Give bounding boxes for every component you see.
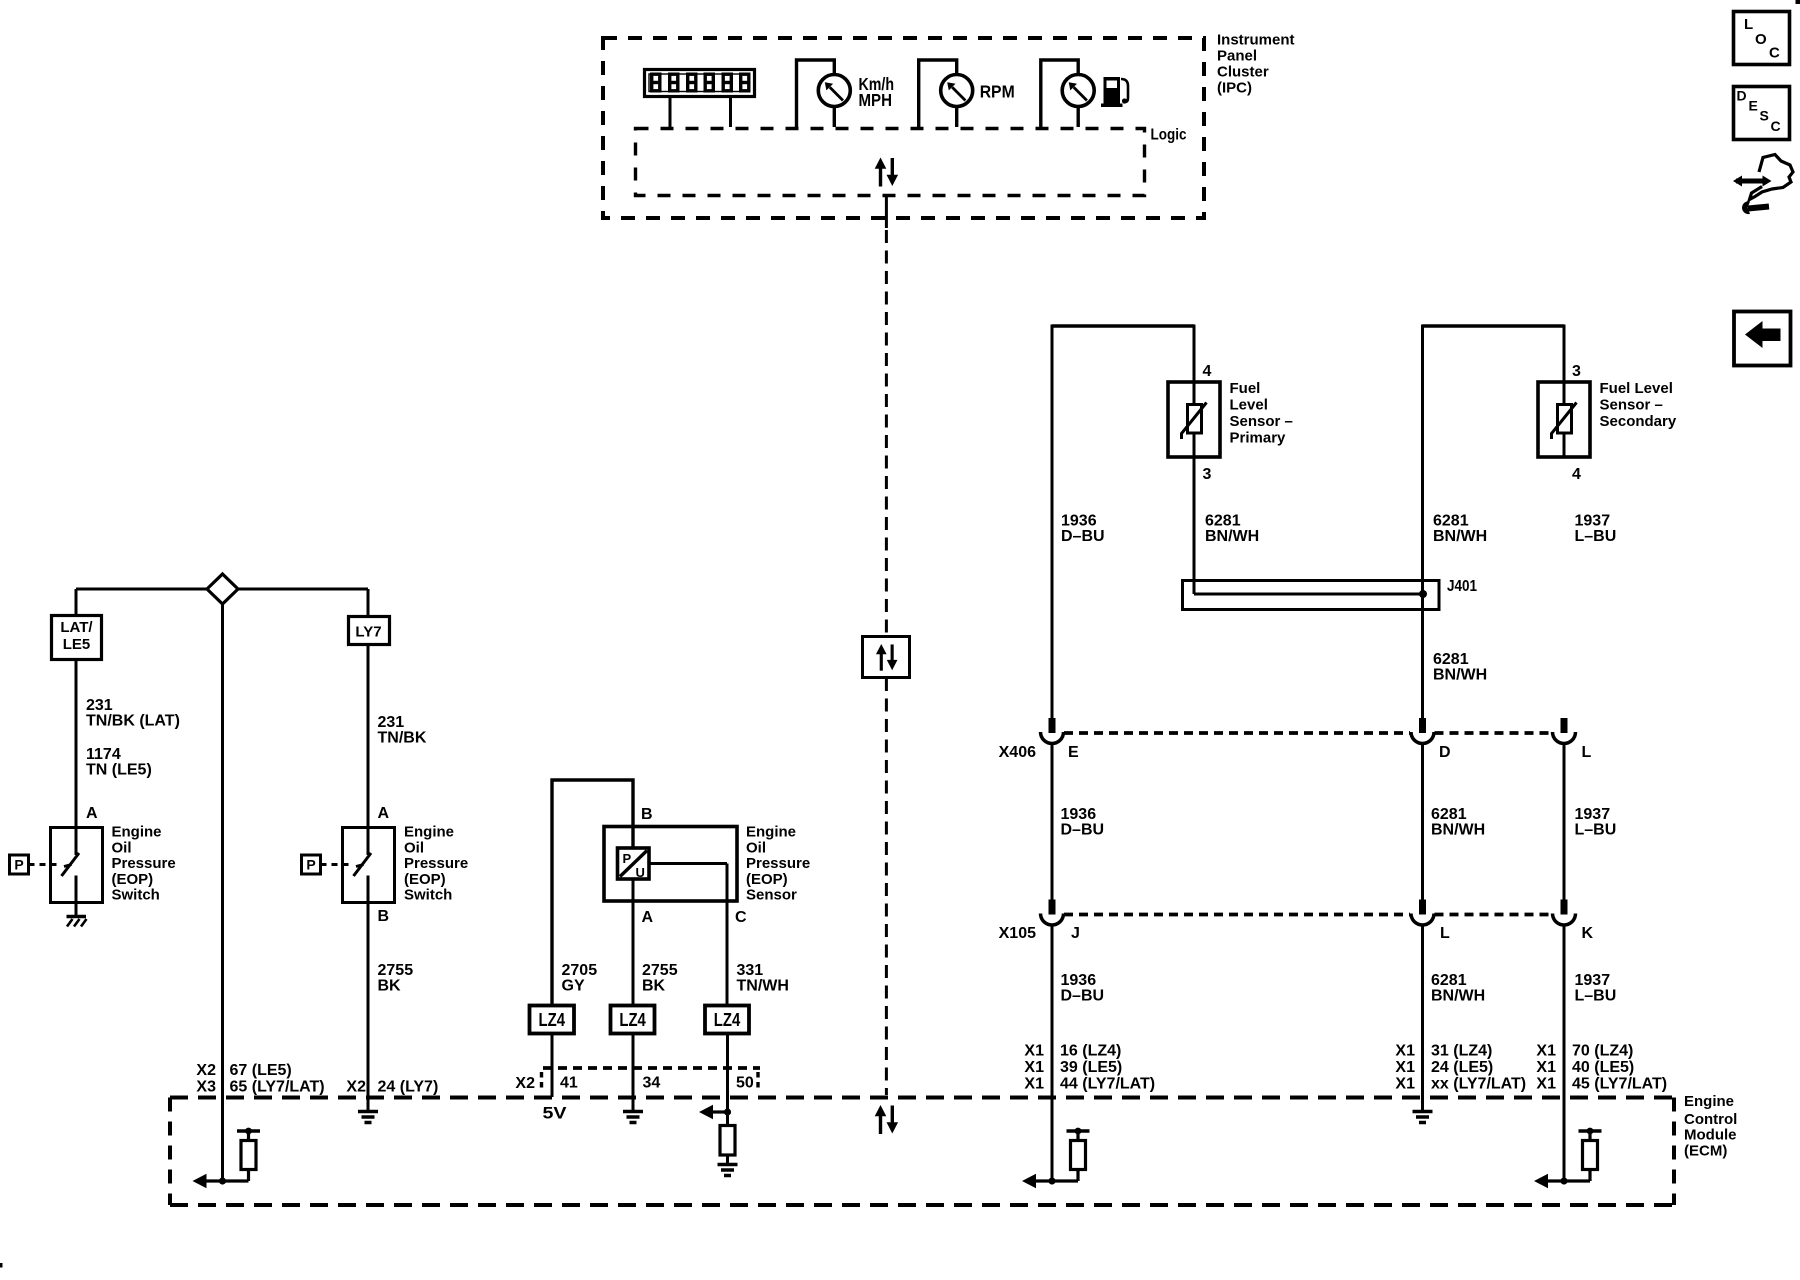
svg-text:Engine: Engine	[746, 824, 796, 841]
svg-text:231: 231	[86, 697, 113, 714]
svg-text:Switch: Switch	[404, 887, 452, 904]
svg-text:A: A	[86, 805, 98, 822]
svg-text:Module: Module	[1684, 1127, 1737, 1144]
svg-text:6281: 6281	[1433, 651, 1469, 668]
svg-text:P: P	[623, 851, 632, 866]
svg-text:331: 331	[737, 962, 764, 979]
svg-text:xx (LY7/LAT): xx (LY7/LAT)	[1431, 1076, 1526, 1093]
svg-text:B: B	[641, 806, 653, 823]
svg-text:70 (LZ4): 70 (LZ4)	[1572, 1043, 1633, 1060]
svg-text:2705: 2705	[562, 962, 598, 979]
svg-text:Secondary: Secondary	[1600, 413, 1677, 430]
svg-text:5V: 5V	[543, 1104, 568, 1123]
svg-text:C: C	[1769, 45, 1780, 62]
svg-text:B: B	[378, 908, 390, 925]
svg-text:2755: 2755	[642, 962, 678, 979]
svg-text:24 (LY7): 24 (LY7)	[378, 1079, 439, 1096]
svg-text:C: C	[1771, 118, 1781, 134]
svg-text:1936: 1936	[1061, 513, 1097, 530]
svg-text:Engine: Engine	[404, 824, 454, 841]
svg-text:6281: 6281	[1205, 513, 1241, 530]
svg-text:A: A	[378, 805, 390, 822]
svg-text:J401: J401	[1447, 578, 1477, 595]
svg-text:BK: BK	[378, 978, 402, 995]
svg-text:X1: X1	[1024, 1076, 1044, 1093]
svg-text:X2: X2	[346, 1079, 366, 1096]
svg-text:C: C	[735, 909, 747, 926]
svg-text:Switch: Switch	[112, 887, 160, 904]
svg-text:S: S	[1760, 108, 1769, 124]
svg-text:J: J	[1071, 925, 1080, 942]
svg-text:X2: X2	[196, 1062, 216, 1079]
svg-text:44 (LY7/LAT): 44 (LY7/LAT)	[1060, 1076, 1155, 1093]
svg-text:RPM: RPM	[980, 82, 1015, 102]
svg-text:2755: 2755	[378, 962, 414, 979]
svg-text:X1: X1	[1395, 1059, 1415, 1076]
svg-text:LZ4: LZ4	[539, 1010, 566, 1030]
svg-text:Oil: Oil	[404, 839, 424, 856]
svg-text:45 (LY7/LAT): 45 (LY7/LAT)	[1572, 1076, 1667, 1093]
svg-text:L–BU: L–BU	[1575, 822, 1617, 839]
svg-text:MPH: MPH	[859, 90, 893, 110]
svg-text:P: P	[306, 857, 315, 873]
svg-text:X1: X1	[1395, 1076, 1415, 1093]
svg-text:6281: 6281	[1431, 806, 1467, 823]
svg-text:GY: GY	[562, 978, 585, 995]
svg-text:X1: X1	[1024, 1059, 1044, 1076]
svg-text:BN/WH: BN/WH	[1433, 667, 1487, 684]
svg-text:Primary: Primary	[1230, 430, 1287, 447]
svg-text:Fuel Level: Fuel Level	[1600, 380, 1673, 397]
svg-text:TN/BK (LAT): TN/BK (LAT)	[86, 713, 180, 730]
svg-text:A: A	[642, 909, 654, 926]
svg-text:L: L	[1440, 925, 1450, 942]
svg-text:L–BU: L–BU	[1575, 528, 1617, 545]
svg-text:X105: X105	[999, 925, 1036, 942]
svg-text:4: 4	[1572, 466, 1581, 483]
svg-text:4: 4	[1203, 363, 1212, 380]
svg-text:(EOP): (EOP)	[746, 871, 788, 888]
svg-text:D: D	[1439, 744, 1451, 761]
svg-text:X1: X1	[1024, 1043, 1044, 1060]
svg-text:L: L	[1582, 744, 1592, 761]
svg-text:K: K	[1582, 925, 1594, 942]
svg-text:X1: X1	[1536, 1043, 1556, 1060]
svg-text:U: U	[636, 865, 645, 880]
svg-text:Pressure: Pressure	[746, 855, 810, 872]
svg-text:LAT/: LAT/	[60, 619, 93, 636]
svg-text:Oil: Oil	[112, 839, 132, 856]
svg-text:(EOP): (EOP)	[112, 871, 154, 888]
svg-text:LY7: LY7	[355, 624, 381, 641]
svg-text:BN/WH: BN/WH	[1205, 528, 1259, 545]
svg-text:X406: X406	[999, 744, 1036, 761]
svg-text:X3: X3	[196, 1079, 216, 1096]
svg-text:X1: X1	[1395, 1043, 1415, 1060]
svg-text:Logic: Logic	[1151, 127, 1187, 144]
svg-text:Oil: Oil	[746, 839, 766, 856]
svg-text:Engine: Engine	[112, 824, 162, 841]
svg-text:1936: 1936	[1061, 972, 1097, 989]
svg-text:X1: X1	[1536, 1059, 1556, 1076]
svg-text:(EOP): (EOP)	[404, 871, 446, 888]
svg-text:39 (LE5): 39 (LE5)	[1060, 1059, 1122, 1076]
svg-text:31 (LZ4): 31 (LZ4)	[1431, 1043, 1492, 1060]
svg-text:LE5: LE5	[63, 636, 91, 653]
svg-text:TN/BK: TN/BK	[378, 730, 427, 747]
svg-text:Pressure: Pressure	[404, 855, 468, 872]
svg-text:67 (LE5): 67 (LE5)	[230, 1062, 292, 1079]
svg-text:O: O	[1755, 31, 1767, 48]
svg-text:50: 50	[736, 1075, 754, 1092]
svg-text:3: 3	[1203, 466, 1212, 483]
svg-text:P: P	[14, 857, 23, 873]
svg-text:1937: 1937	[1575, 513, 1611, 530]
svg-text:L–BU: L–BU	[1575, 988, 1617, 1005]
svg-text:LZ4: LZ4	[714, 1010, 741, 1030]
svg-text:Pressure: Pressure	[112, 855, 176, 872]
svg-text:Engine: Engine	[1684, 1093, 1734, 1110]
svg-text:E: E	[1068, 744, 1079, 761]
svg-text:LZ4: LZ4	[619, 1010, 646, 1030]
svg-text:40 (LE5): 40 (LE5)	[1572, 1059, 1634, 1076]
svg-text:Sensor: Sensor	[746, 887, 797, 904]
svg-text:Fuel: Fuel	[1230, 380, 1261, 397]
svg-text:(IPC): (IPC)	[1217, 80, 1252, 97]
svg-text:(ECM): (ECM)	[1684, 1143, 1727, 1160]
svg-text:Sensor –: Sensor –	[1230, 413, 1293, 430]
svg-text:Level: Level	[1230, 397, 1268, 414]
svg-text:BN/WH: BN/WH	[1433, 528, 1487, 545]
svg-text:1936: 1936	[1061, 806, 1097, 823]
svg-text:Instrument: Instrument	[1217, 32, 1295, 49]
svg-text:231: 231	[378, 714, 405, 731]
svg-text:24 (LE5): 24 (LE5)	[1431, 1059, 1493, 1076]
svg-text:BN/WH: BN/WH	[1431, 988, 1485, 1005]
svg-text:E: E	[1749, 98, 1758, 114]
svg-text:34: 34	[643, 1075, 661, 1092]
svg-text:L: L	[1744, 16, 1753, 33]
svg-text:BK: BK	[642, 978, 666, 995]
svg-text:1937: 1937	[1575, 806, 1611, 823]
svg-text:3: 3	[1572, 363, 1581, 380]
svg-text:Sensor –: Sensor –	[1600, 397, 1663, 414]
svg-text:X1: X1	[1536, 1076, 1556, 1093]
svg-text:TN (LE5): TN (LE5)	[86, 762, 152, 779]
svg-text:BN/WH: BN/WH	[1431, 822, 1485, 839]
svg-text:65 (LY7/LAT): 65 (LY7/LAT)	[230, 1079, 325, 1096]
svg-text:6281: 6281	[1433, 513, 1469, 530]
svg-text:41: 41	[560, 1075, 578, 1092]
svg-text:Control: Control	[1684, 1111, 1737, 1128]
svg-text:6281: 6281	[1431, 972, 1467, 989]
svg-text:Panel: Panel	[1217, 48, 1257, 65]
svg-text:D–BU: D–BU	[1061, 528, 1105, 545]
svg-text:1937: 1937	[1575, 972, 1611, 989]
svg-text:X2: X2	[515, 1075, 535, 1092]
svg-text:Cluster: Cluster	[1217, 64, 1269, 81]
svg-text:1174: 1174	[86, 746, 121, 763]
svg-text:TN/WH: TN/WH	[737, 978, 789, 995]
svg-text:16 (LZ4): 16 (LZ4)	[1060, 1043, 1121, 1060]
svg-text:D: D	[1737, 88, 1747, 104]
svg-text:D–BU: D–BU	[1061, 988, 1105, 1005]
svg-text:D–BU: D–BU	[1061, 822, 1105, 839]
